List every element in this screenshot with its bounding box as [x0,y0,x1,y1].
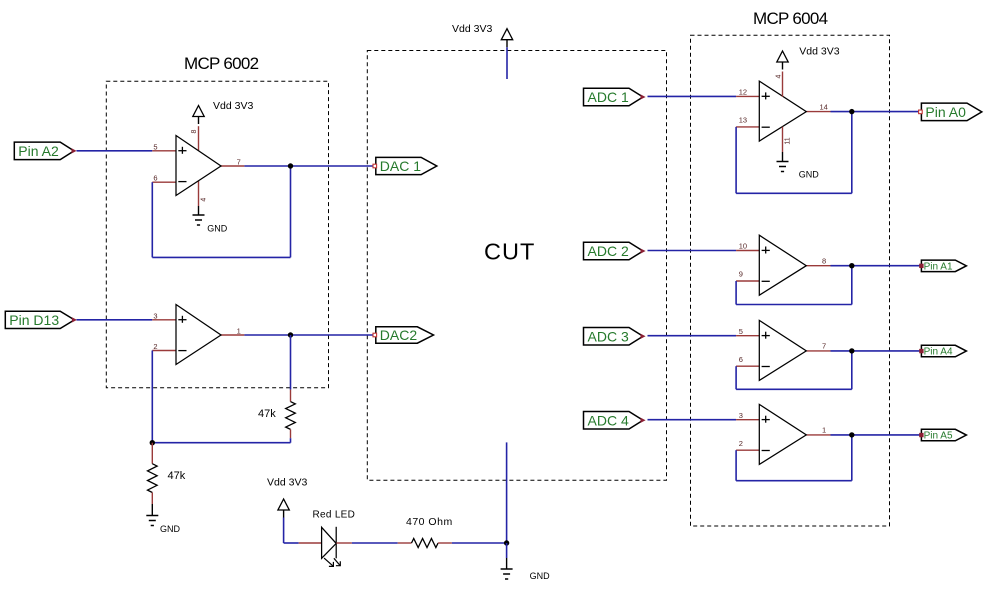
junction U1B output node [288,332,293,337]
pin stub R2 bottom [151,493,153,505]
svg-text:GND: GND [799,170,820,180]
pin 12 +in [736,95,759,97]
ground symbol (U1A) [193,214,205,216]
svg-text:Vdd 3V3: Vdd 3V3 [267,477,307,489]
wire Vdd down to LED row [283,518,285,544]
wire ADC 4 to U3 +in [648,419,737,421]
svg-text:7: 7 [237,158,241,167]
Pin A4 output flag [921,345,966,357]
wire Pin D13 to U1B +in [77,319,153,321]
wire U1B out to DAC2 [244,334,373,336]
op-amp U3C [759,320,806,380]
resistor R3 470 Ohm [412,539,439,548]
svg-text:8: 8 [191,129,198,133]
wire U1B -in down to node R [151,351,153,443]
svg-text:470 Ohm: 470 Ohm [406,516,453,528]
svg-text:47k: 47k [258,408,276,420]
svg-text:DAC 1: DAC 1 [380,158,421,174]
ground symbol (U3A) [777,161,789,163]
CUT (circuit under test) boundary box [367,51,666,481]
junction U3 output node [849,348,854,353]
wire U1A feedback down [151,182,153,257]
pin 8 out [806,265,830,267]
ADC 1 input flag [584,88,644,106]
wire U3 out to Pin A5 [831,434,921,436]
svg-text:11: 11 [784,137,791,144]
svg-text:Pin D13: Pin D13 [9,312,59,328]
pin 11 U3A V- stub [782,127,784,152]
svg-text:MCP 6002: MCP 6002 [184,54,259,73]
Pin A2 input flag [14,142,74,160]
ground symbol (R2) [146,515,158,517]
wire feedback down [735,366,737,389]
wire feedback up [851,351,853,389]
svg-text:2: 2 [739,439,743,448]
Pin A5 output flag [921,429,966,441]
svg-text:DAC2: DAC2 [380,327,418,343]
MCP 6004 (U3) boundary box [691,35,890,526]
wire U3 out to Pin A4 [831,350,921,352]
power symbol Vdd 3V3 (CUT top) [501,29,512,40]
pin stub LED cathode [336,542,352,544]
wire feedback bottom [736,388,852,390]
wire Vdd stem into CUT [506,47,508,79]
pin 5 +in [736,335,759,337]
ADC 3 input flag [584,328,644,346]
LED D1 Red LED [313,509,356,566]
pin 6 -in [736,365,759,367]
junction U3 output node [849,109,854,114]
ground symbol (centre) [501,568,513,570]
junction U3 output node [849,263,854,268]
svg-text:Pin A0: Pin A0 [925,104,966,120]
svg-text:3: 3 [153,311,157,320]
svg-text:Pin A2: Pin A2 [18,143,59,159]
svg-text:CUT: CUT [484,239,535,265]
wire feedback bottom [736,480,852,482]
wire U1A out to DAC 1 [244,165,373,167]
Pin D13 input flag [5,311,74,328]
resistor R2 47k [148,464,158,493]
svg-text:1: 1 [237,327,241,336]
svg-text:6: 6 [739,355,743,364]
svg-text:Vdd 3V3: Vdd 3V3 [799,45,839,57]
svg-text:Pin A5: Pin A5 [924,431,953,442]
op-amp U1B [176,305,221,365]
svg-text:6: 6 [153,174,157,183]
svg-text:7: 7 [822,342,826,351]
svg-text:5: 5 [739,327,743,336]
pin 10 +in [736,250,759,252]
ground stem U3A [782,152,784,162]
svg-text:10: 10 [739,242,747,251]
pin stub R3 left [398,542,412,544]
wire ADC 3 to U3 +in [648,335,737,337]
pin 7 U1A out [221,165,244,167]
wire feedback down [735,450,737,481]
pin 9 -in [736,280,759,282]
wire feedback down [735,281,737,305]
ground stem centre [506,558,508,569]
wire U3 out to Pin A0 [831,111,921,113]
MCP 6002 (U1) boundary box [106,81,328,387]
pin stub R3 right [438,542,452,544]
svg-text:1: 1 [822,426,826,435]
pin stub LED anode [299,542,321,544]
power symbol Vdd 3V3 (U3A) [777,51,788,62]
wire U1A feedback bottom [152,256,290,258]
op-amp U3B [759,235,806,295]
wire feedback bottom [736,192,852,194]
wire U1A feedback up [290,166,292,257]
svg-text:9: 9 [739,270,743,279]
pin 7 out [806,350,830,352]
Pin A1 output flag [921,260,966,272]
pin stub R2 top [151,443,153,464]
junction U1A output node [288,163,293,168]
svg-text:14: 14 [820,102,828,111]
pin 5 U1A +in [152,150,176,152]
wire to LED anode [284,542,299,544]
svg-text:Pin A4: Pin A4 [924,347,953,358]
wire U3 out to Pin A1 [831,265,921,267]
svg-text:8: 8 [822,256,826,265]
svg-text:13: 13 [739,116,747,125]
svg-text:GND: GND [160,524,181,534]
junction node R [150,440,155,445]
ground stem U1A [198,206,200,215]
pin 1 out [806,434,830,436]
junction GND node [504,540,509,545]
pin 2 -in [736,449,759,451]
pin 2 U1B -in [152,350,176,352]
op-amp U3D [759,404,806,464]
DAC 1 output flag [376,157,437,174]
resistor R1 47k [286,402,296,430]
wire R1 to node R [290,438,292,443]
svg-text:GND: GND [207,224,228,234]
svg-text:47k: 47k [168,470,186,482]
Pin A0 output flag [921,103,981,121]
svg-text:Pin A1: Pin A1 [924,261,953,272]
wire DAC2 node down to R1 [290,335,292,390]
ground stem R2 [151,504,153,516]
svg-text:3: 3 [739,411,743,420]
wire feedback up [851,266,853,305]
svg-text:Vdd 3V3: Vdd 3V3 [452,23,492,35]
wire LED to R3 [352,542,398,544]
svg-text:4: 4 [776,74,783,78]
svg-text:ADC 4: ADC 4 [588,412,629,428]
wire CUT centre vertical [506,442,508,543]
pin 4 U3A V+ stub [782,72,784,97]
pin 1 U1B out [221,334,244,336]
ADC 4 input flag [584,412,644,430]
svg-text:2: 2 [153,342,157,351]
wire feedback up [851,112,853,194]
svg-text:ADC 3: ADC 3 [588,328,629,344]
pin 8 U1A V+ stub [198,126,200,151]
pin 13 -in [736,126,759,128]
svg-text:5: 5 [153,142,157,151]
wire feedback up [851,435,853,481]
power symbol Vdd 3V3 (U1A) [193,106,204,117]
pin 14 out [806,111,830,113]
junction U3 output node [849,432,854,437]
svg-text:12: 12 [739,88,747,97]
wire GND node down [506,543,508,558]
pin 3 +in [736,419,759,421]
svg-text:4: 4 [201,198,208,202]
svg-text:MCP 6004: MCP 6004 [753,9,828,28]
svg-text:Red LED: Red LED [313,509,356,520]
wire ADC 2 to U3 +in [648,250,737,252]
op-amp U1A [176,136,221,196]
wire node R horizontal [152,442,290,444]
svg-text:GND: GND [530,571,551,581]
pin stub R1 bottom [290,429,292,438]
wire Pin A2 to U1A +in [77,150,153,152]
pin stub R1 top [290,390,292,402]
svg-text:Vdd 3V3: Vdd 3V3 [213,100,253,112]
wire feedback bottom [736,304,852,306]
pin 3 U1B +in [152,319,176,321]
svg-text:ADC 1: ADC 1 [588,89,629,105]
pin 4 U1A V- stub [198,181,200,206]
wire feedback down [735,127,737,193]
op-amp U3A [759,81,806,141]
power symbol Vdd 3V3 (LED branch) [278,499,289,510]
ADC 2 input flag [584,242,644,259]
DAC2 output flag [376,327,434,343]
wire R3 to GND node [452,542,507,544]
wire ADC 1 to U3 +in [648,95,737,97]
pin 6 U1A -in [152,181,176,183]
svg-text:ADC 2: ADC 2 [588,243,629,259]
